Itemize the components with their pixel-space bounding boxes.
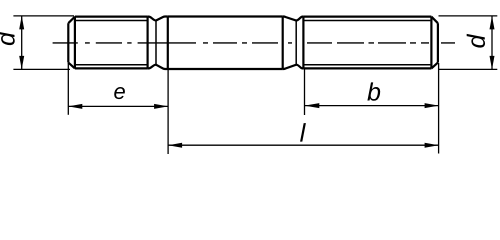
arrow d-left up bbox=[19, 16, 24, 30]
left thread crest bottom bbox=[75, 67, 148, 69]
label e bbox=[114, 87, 125, 99]
left thread root top bbox=[76, 20, 148, 22]
left chamfer top bbox=[68, 17, 75, 24]
label d left (rotated) bbox=[0, 31, 15, 45]
right runout thread line bbox=[295, 21, 297, 65]
right thread crest top bbox=[303, 16, 431, 18]
arrow l right bbox=[425, 143, 439, 148]
dim line d-right bbox=[491, 16, 493, 70]
left runout thread line bbox=[155, 21, 157, 65]
ext line d-left top bbox=[13, 15, 74, 17]
arrow e right bbox=[154, 104, 168, 109]
shank bottom edge bbox=[168, 68, 283, 70]
dim line b bbox=[305, 105, 439, 107]
right thread root bottom bbox=[303, 64, 430, 66]
ext line d-right bottom bbox=[439, 68, 498, 70]
left end face bbox=[67, 23, 69, 62]
right thread start line bbox=[302, 17, 304, 69]
right runout bottom edge bbox=[283, 65, 304, 69]
right thread root top bbox=[303, 20, 430, 22]
right end face bbox=[437, 23, 439, 62]
arrow b right bbox=[425, 103, 439, 108]
dim line d-left bbox=[21, 16, 23, 70]
stud body outline bbox=[68, 17, 438, 70]
right chamfer bottom bbox=[431, 63, 438, 69]
left thread root bottom bbox=[76, 64, 148, 66]
arrowheads bbox=[19, 16, 494, 148]
ext line d-left bottom bbox=[13, 68, 70, 70]
left runout bottom edge bbox=[148, 65, 168, 69]
dim line e bbox=[68, 105, 168, 107]
arrow l left bbox=[168, 143, 182, 148]
arrow d-right up bbox=[490, 16, 495, 30]
arrow b left bbox=[305, 103, 320, 108]
label d right (rotated) bbox=[467, 34, 485, 48]
left thread end line bbox=[147, 17, 149, 69]
centerline bbox=[53, 42, 455, 44]
arrow d-left down bbox=[19, 56, 24, 70]
dimension and extension lines bbox=[13, 16, 497, 154]
ext line d-right top bbox=[439, 15, 498, 17]
label b bbox=[367, 82, 380, 100]
shank end line bbox=[282, 17, 284, 70]
left chamfer circle line bbox=[74, 17, 76, 69]
right thread crest bottom bbox=[303, 67, 431, 69]
right chamfer circle line bbox=[430, 17, 432, 69]
right runout top edge bbox=[283, 17, 304, 21]
dim line l bbox=[168, 144, 439, 146]
shank start line bbox=[167, 17, 169, 70]
ext line b-left bbox=[304, 69, 306, 115]
thin part lines bbox=[76, 21, 431, 65]
ext line b-right / l-right bbox=[438, 63, 440, 154]
ext line e-left (end face extended) bbox=[67, 63, 69, 115]
label l bbox=[300, 123, 306, 141]
arrow d-right down bbox=[490, 56, 495, 70]
arrow e left bbox=[68, 104, 82, 109]
left chamfer bottom bbox=[68, 63, 75, 69]
ext line e-right / l-left bbox=[167, 69, 169, 154]
left thread crest top bbox=[75, 16, 148, 18]
right chamfer top bbox=[431, 17, 438, 24]
shank top edge bbox=[168, 15, 283, 17]
left runout top edge bbox=[148, 17, 168, 21]
